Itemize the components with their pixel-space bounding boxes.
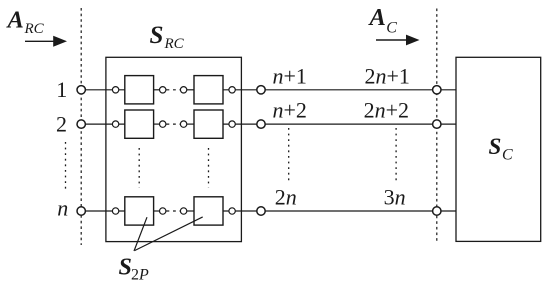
wire row2 between squares solid stub <box>154 123 167 125</box>
port circle n (left) <box>77 207 85 215</box>
svg-text:2P: 2P <box>131 267 149 284</box>
inner circle row2 b <box>160 121 166 127</box>
arrow A_C <box>376 39 407 41</box>
inner circle row n a <box>112 208 118 214</box>
two-port square row2 col1 <box>125 110 154 138</box>
inner circle row2 a <box>112 121 118 127</box>
svg-text:S: S <box>119 254 132 280</box>
svg-text:RC: RC <box>164 36 185 52</box>
svg-text:C: C <box>386 20 397 37</box>
two-port square row1 col1 <box>125 76 154 104</box>
port circle 2n+1 <box>433 86 441 94</box>
ellipsis dotted line inside S_RC under square column 1 <box>138 148 140 188</box>
svg-text:2n: 2n <box>275 184 297 209</box>
wire row1 left segment <box>81 89 125 91</box>
inner circle row n d <box>229 208 235 214</box>
port circle 2n+2 <box>433 120 441 128</box>
wire row n between squares solid stub <box>154 210 167 212</box>
inner circle row1 b <box>160 87 166 93</box>
svg-text:A: A <box>6 6 24 33</box>
port circle 2 (left) <box>77 120 85 128</box>
svg-text:RC: RC <box>24 21 45 37</box>
inner circle row1 a <box>112 87 118 93</box>
wire row1 dotted middle <box>167 89 181 91</box>
reference plane dashed line right (A_C plane) <box>436 9 438 242</box>
svg-text:S: S <box>150 22 164 49</box>
port circle 3n <box>433 207 441 215</box>
ellipsis dotted line, left label column <box>65 142 67 191</box>
wire row n stub before square 2 <box>181 210 195 212</box>
ellipsis dotted line mid-span below 2n+2 <box>395 128 397 181</box>
inner circle row1 d <box>229 87 235 93</box>
pointer line to square row n col1 <box>134 217 147 251</box>
ellipsis dotted line mid-span below n+2 <box>288 128 290 181</box>
svg-text:2n+2: 2n+2 <box>364 98 409 123</box>
svg-text:3n: 3n <box>384 184 406 209</box>
inner circle row n b <box>160 208 166 214</box>
wire row2 stub before square 2 <box>181 123 195 125</box>
wire row1 stub before square 2 <box>181 89 195 91</box>
inner circle row2 c <box>180 121 186 127</box>
inner circle row2 d <box>229 121 235 127</box>
svg-text:n: n <box>57 196 68 221</box>
two-port square row n col1 <box>125 197 154 225</box>
port circle 1 (left) <box>77 86 85 94</box>
pointer line to square row n col2 <box>135 217 203 251</box>
reference plane dashed line left (A_RC plane) <box>80 8 82 245</box>
svg-text:1: 1 <box>56 77 67 102</box>
wire row n left segment <box>81 210 125 212</box>
inner circle row1 c <box>180 87 186 93</box>
port circle n+2 <box>257 120 265 128</box>
two-port square row1 col2 <box>194 76 223 104</box>
wire row2 left segment <box>81 123 125 125</box>
wire row n dotted middle <box>167 210 181 212</box>
two-port square row2 col2 <box>194 110 223 138</box>
wire row1 right long segment <box>223 89 456 91</box>
box S_RC <box>106 57 242 241</box>
wire row2 dotted middle <box>167 123 181 125</box>
inner circle row n c <box>180 208 186 214</box>
ellipsis dotted line inside S_RC under square column 2 <box>208 148 210 188</box>
box S_C <box>456 57 541 241</box>
svg-text:n+1: n+1 <box>273 63 307 88</box>
svg-text:2n+1: 2n+1 <box>365 63 410 88</box>
port circle n+1 <box>257 86 265 94</box>
wire row2 right long segment <box>223 123 456 125</box>
svg-text:A: A <box>368 4 386 31</box>
svg-text:n+2: n+2 <box>273 98 307 123</box>
svg-text:2: 2 <box>56 111 67 136</box>
wire row1 between squares solid stub <box>154 89 167 91</box>
two-port square row n col2 <box>194 197 223 225</box>
svg-text:C: C <box>502 147 513 164</box>
svg-text:S: S <box>489 134 502 159</box>
wire row n right long segment <box>223 210 456 212</box>
arrow A_RC <box>25 40 55 42</box>
port circle 2n <box>257 207 265 215</box>
